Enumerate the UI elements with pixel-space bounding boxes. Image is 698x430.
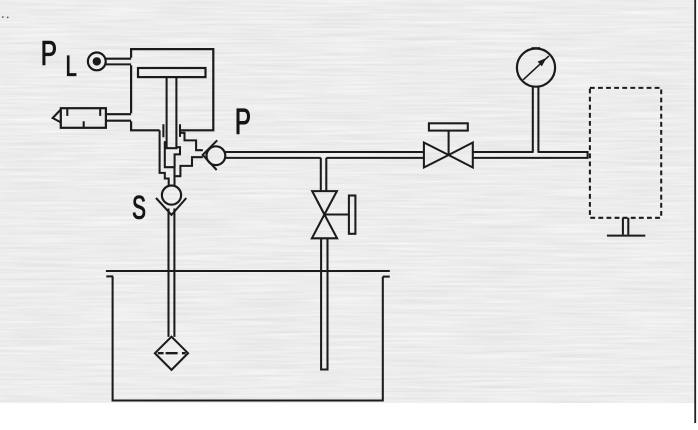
gauge needle [523, 56, 549, 80]
actuator arrow head [53, 110, 61, 123]
main pipe left segment upper wall [225, 151, 424, 153]
tank right lip [383, 276, 390, 278]
branch pipe to drain valve [321, 158, 327, 191]
drain valve handle stem [324, 213, 349, 215]
shutoff valve stem [448, 131, 450, 155]
manual actuator (handle) body [61, 108, 106, 128]
gauge top tick [532, 47, 541, 49]
label L subscript [67, 56, 76, 76]
gauge needle arrowhead [538, 58, 547, 66]
chamber drain stub [623, 218, 628, 235]
pressure gauge G1 [517, 49, 555, 87]
channel actuator to pump [106, 114, 131, 121]
filter mesh dashed line [158, 352, 186, 354]
tank left lip [106, 275, 113, 277]
piston rod [167, 78, 177, 149]
check valve P seat [203, 140, 218, 170]
tank walls and bottom [113, 276, 383, 400]
pipe end cap at test chamber [587, 151, 589, 159]
pipe from port PL to pump body [106, 59, 131, 65]
chamber drain base line [607, 235, 645, 237]
drain valve handle bar [349, 196, 356, 234]
main pipe right segment upper wall (open at gauge tee) [473, 151, 588, 153]
main pipe right segment lower wall [473, 157, 588, 159]
pump lower body lower right wall [175, 157, 203, 176]
shutoff valve left triangle [424, 143, 449, 168]
check valve S ball [162, 186, 181, 205]
speck dots top-left [2, 16, 9, 18]
tank rim line [106, 270, 390, 272]
frame border right [694, 0, 696, 423]
drain globe valve upper triangle [312, 191, 337, 214]
pump lower body discharge channel lower wall [175, 147, 180, 167]
drain globe valve lower triangle [312, 215, 337, 239]
pump lower body outer right wall [181, 133, 203, 150]
gland ticks [163, 124, 180, 137]
filter F1 diamond [155, 337, 188, 370]
main pipe left segment lower wall (open at tee) [225, 157, 424, 159]
check valve P ball [207, 146, 226, 165]
test chamber (dashed box) [590, 88, 661, 218]
label P (pilot port) [43, 41, 56, 65]
label S (suction valve) [133, 196, 145, 219]
pump lower body inner left wall [165, 142, 175, 186]
shutoff valve T-handle [429, 123, 468, 130]
piston head [138, 68, 206, 77]
pump body U1 [131, 49, 213, 130]
check valve S seat [156, 198, 186, 215]
drain pipe into tank [321, 238, 327, 369]
suction pipe [169, 209, 175, 337]
label P (outlet) [237, 109, 250, 134]
port PL circle [88, 53, 106, 71]
shutoff valve right triangle [449, 143, 473, 168]
actuator internal ticks [67, 108, 100, 128]
gauge stem pipe [533, 87, 539, 153]
pump lower body outer left wall [160, 130, 169, 185]
